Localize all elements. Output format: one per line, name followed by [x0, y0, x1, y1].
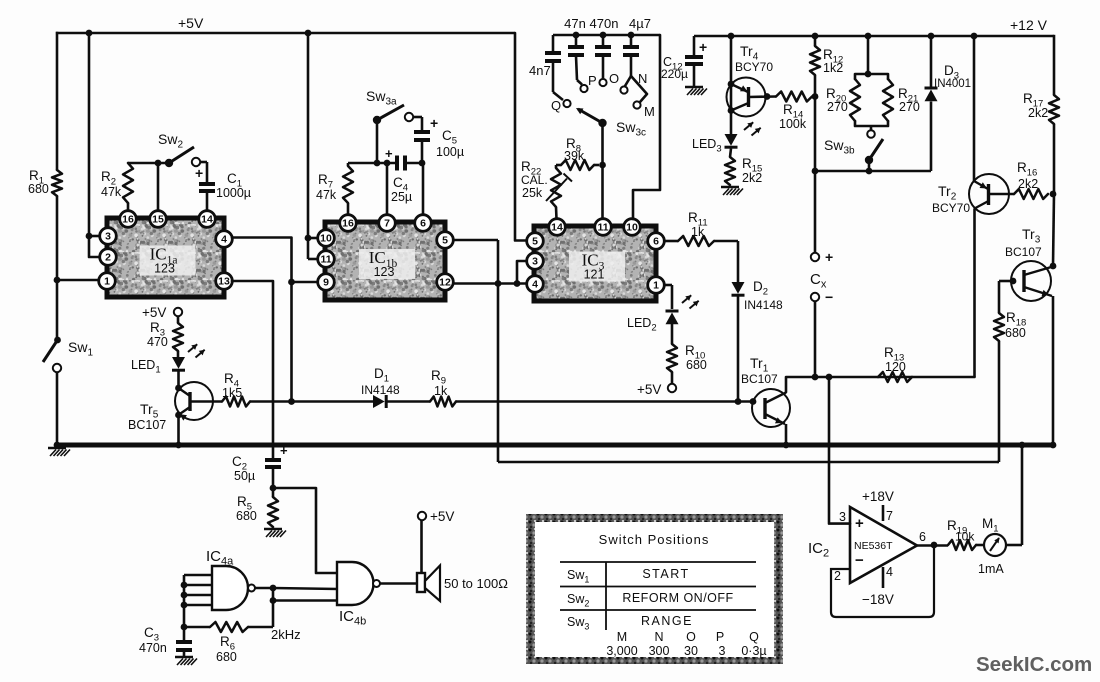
svg-text:30: 30 [684, 644, 698, 658]
svg-text:+: + [280, 443, 288, 458]
node R8 junction [599, 162, 606, 169]
label Tr1 [750, 355, 769, 375]
label IC4b [339, 608, 366, 628]
wire IC2 pin2 feedback [831, 546, 934, 617]
svg-text:9: 9 [323, 277, 329, 289]
wire IC2 pin3 [829, 377, 850, 524]
svg-text:NE536T: NE536T [854, 540, 893, 552]
svg-text:11: 11 [320, 254, 331, 266]
label LED1 [131, 358, 161, 376]
label Tr1 type [741, 372, 778, 386]
svg-text:13: 13 [218, 276, 230, 288]
label +5V rail [178, 15, 204, 31]
wire pin9 to riser [292, 281, 318, 284]
svg-text:BCY70: BCY70 [735, 60, 773, 74]
label pin2 [834, 569, 841, 583]
node R16 right [1050, 191, 1057, 198]
svg-text:1000µ: 1000µ [216, 186, 251, 200]
svg-text:2k2: 2k2 [1028, 106, 1048, 120]
svg-text:5: 5 [442, 235, 448, 247]
pin IC1a-13 [216, 273, 233, 290]
resistor R14 [776, 92, 812, 102]
wire LED3 to R15 [730, 149, 731, 158]
label R7 value [316, 188, 337, 202]
svg-text:O: O [686, 630, 696, 644]
wire R22 to pin14 [555, 207, 558, 219]
terminal Cx plus [811, 253, 819, 261]
label Tr3 [1022, 226, 1041, 246]
label 4n7 [529, 63, 551, 78]
label M1 [982, 516, 999, 535]
wire Sw2 horizontal [128, 162, 170, 165]
label D3 [944, 63, 959, 82]
ground R5 [264, 529, 286, 537]
pin IC1a-4 [216, 231, 233, 248]
switch Sw1 [43, 337, 61, 373]
wire C5 to node [421, 141, 424, 163]
svg-text:BC107: BC107 [1005, 245, 1042, 259]
svg-text:3: 3 [532, 256, 538, 268]
label R5 value [236, 509, 257, 523]
label IC2 [808, 540, 829, 560]
label IC2 plus [855, 515, 864, 532]
table frame [526, 514, 783, 664]
label R6 value [216, 650, 237, 664]
op-amp IC2 [850, 507, 917, 583]
node R20 rail [865, 33, 872, 40]
wire pin12 to IC3 pin4 [453, 282, 526, 285]
svg-text:47n: 47n [564, 16, 586, 31]
svg-text:1k2: 1k2 [823, 61, 843, 75]
wire IC4a inputs [184, 575, 212, 605]
resistor R19 [948, 540, 976, 550]
svg-text:680: 680 [1005, 326, 1026, 340]
wire R8 to R22 [556, 165, 561, 168]
label +12V [1010, 17, 1048, 33]
wire lower link line [498, 461, 998, 464]
wire R20R21 bottom [855, 121, 888, 130]
wire Tr3 emitter down [1052, 296, 1055, 445]
wire Tr3 base bar [1022, 270, 1025, 292]
pin IC1b-11 [318, 251, 335, 268]
table P [716, 630, 724, 644]
IC U3 body [534, 226, 656, 301]
wire R17 to R16 node [1053, 124, 1056, 194]
pin IC1b-7 [379, 215, 396, 232]
pin IC1b-9 [318, 274, 335, 291]
svg-text:6: 6 [919, 530, 926, 544]
label C4 plus [385, 146, 393, 161]
wire LED2 to R10 [671, 324, 674, 344]
wire +5V to speaker [420, 520, 423, 573]
label R18 [1006, 310, 1026, 329]
watermark SeekIC.com [976, 653, 1092, 676]
svg-text:Q: Q [749, 630, 759, 644]
svg-text:100k: 100k [779, 117, 807, 131]
label LED2 [627, 316, 657, 334]
label Tr2 [938, 183, 957, 203]
svg-text:680: 680 [236, 509, 257, 523]
wire cap bank rail [553, 34, 660, 36]
wire +5V to IC3 pin5 [515, 33, 526, 241]
svg-text:P: P [716, 630, 724, 644]
wire Sw3b bottom link [815, 170, 931, 173]
node Tr1 emitter bus [783, 442, 790, 449]
label C2 value [234, 469, 255, 483]
label C12 plus [699, 39, 707, 55]
svg-text:680: 680 [216, 650, 237, 664]
label Cx plus sign [825, 249, 833, 265]
label 4u7 [629, 16, 651, 31]
wire +5V rail [56, 32, 515, 34]
terminal +5V R10 [668, 384, 676, 392]
node Tr4 rail [728, 33, 735, 40]
terminal +5V IC1a [174, 308, 182, 316]
label R17 value [1028, 106, 1048, 120]
pin IC1b-12 [437, 274, 454, 291]
table title [599, 532, 710, 547]
svg-text:270: 270 [899, 100, 920, 114]
wire Tr4 base bar [747, 87, 750, 107]
label M1 value [978, 562, 1004, 576]
node R20R21 top [865, 71, 872, 78]
wire ground bus [56, 443, 1053, 448]
node pin1 tap [54, 277, 61, 284]
IC U1b body [325, 222, 445, 300]
node M1 bus [1019, 442, 1026, 449]
wire C4 to C5 node [405, 162, 423, 165]
svg-text:+18V: +18V [862, 489, 894, 504]
svg-text:BCY70: BCY70 [932, 201, 970, 215]
node pin7 riser [384, 160, 391, 167]
resistor R16 [1014, 189, 1048, 199]
label Cx minus sign [825, 289, 833, 305]
svg-text:3: 3 [719, 644, 726, 658]
svg-text:IN4148: IN4148 [744, 298, 783, 312]
capacitor C 470n [595, 35, 611, 78]
label R20 value [827, 100, 848, 114]
label R12 value [823, 61, 843, 75]
wire Tr1 emitter down [785, 424, 788, 445]
label +5V IC1a [142, 305, 166, 320]
label C1 value [216, 186, 251, 200]
svg-text:−18V: −18V [862, 592, 894, 607]
wire Tr2 emitter lead [974, 181, 988, 189]
table 300 [649, 644, 670, 658]
node Tr5 collector [175, 385, 182, 392]
label R5 [237, 494, 252, 513]
svg-text:10k: 10k [955, 530, 975, 544]
wire IC4a input bus [183, 575, 186, 627]
svg-text:220µ: 220µ [661, 67, 688, 81]
diode D3 [925, 88, 938, 101]
diode D2 [732, 282, 745, 295]
resistor R9 [430, 397, 456, 407]
wire Tr4 emitter riser [730, 36, 733, 134]
wire Tr3 base in [999, 280, 1012, 283]
wire Tr2 base bar [987, 184, 990, 205]
node bus left end [54, 442, 61, 449]
label R2 [101, 169, 116, 188]
LED LED3 [725, 122, 761, 147]
wire IC2 pin4 [882, 567, 885, 588]
label R4 value [222, 386, 242, 400]
table RANGE [641, 614, 693, 628]
label R1 [29, 168, 44, 187]
svg-text:BC107: BC107 [128, 418, 166, 432]
label IC2 type [854, 540, 893, 552]
resistor R20 [850, 79, 860, 121]
svg-text:50µ: 50µ [234, 469, 255, 483]
pin IC1b-10 [318, 230, 335, 247]
node pin10 junction [305, 235, 312, 242]
svg-text:121: 121 [584, 268, 605, 282]
table Q [749, 630, 759, 644]
label R17 [1023, 91, 1043, 110]
pin IC3-14 [549, 219, 566, 236]
node +5V rail to IC1b riser [305, 30, 312, 37]
wire Sw1 to ground bus [56, 372, 59, 445]
wire pin13 to C2 [232, 281, 273, 459]
resistor R13 [878, 372, 912, 382]
svg-text:4: 4 [886, 565, 893, 579]
capacitor C4 [397, 156, 405, 171]
node Tr1 base [750, 398, 757, 405]
svg-text:5: 5 [532, 236, 538, 248]
label C12 value [661, 67, 688, 81]
label C3 value [139, 641, 167, 655]
label D3 value [934, 78, 971, 90]
wire R17 top [1053, 35, 1056, 95]
label Tr5 type [128, 418, 166, 432]
wire Tr5 emitter down [177, 415, 180, 445]
wire IC2 pin7 [882, 505, 885, 521]
label R13 [884, 345, 904, 364]
label +5V speaker [430, 509, 454, 524]
svg-text:2k2: 2k2 [1018, 177, 1038, 191]
wire Sw3c to pin11 [601, 123, 604, 219]
label R22 value [522, 186, 543, 200]
label C4 [393, 175, 408, 194]
node C2/R5 junction [270, 485, 277, 492]
svg-text:16: 16 [122, 214, 134, 226]
wire Tr5 base bar [188, 392, 191, 411]
wire R4 to D1 [250, 400, 373, 403]
contact O [599, 79, 606, 86]
svg-text:N: N [654, 630, 663, 644]
svg-text:−: − [855, 552, 864, 569]
capacitor C 4n7 [545, 35, 561, 92]
diode D1 [373, 395, 386, 408]
label R21 value [899, 100, 920, 114]
resistor R3 [173, 323, 183, 351]
wire C4 bus [348, 162, 397, 165]
node Sw2 pin15 [155, 160, 162, 167]
switch Sw3b [865, 139, 883, 164]
svg-text:M: M [617, 630, 627, 644]
svg-text:25µ: 25µ [391, 190, 412, 204]
svg-text:M: M [644, 104, 655, 119]
LED LED2 [664, 285, 699, 324]
label Q [551, 98, 561, 113]
label R18 value [1005, 326, 1026, 340]
svg-text:2: 2 [834, 569, 841, 583]
wire R12 node to Cx plus [814, 171, 817, 253]
node bus right end [1050, 442, 1057, 449]
wire +12V rail [694, 35, 1054, 37]
IC U1a body [107, 218, 224, 297]
label R16 value [1018, 177, 1038, 191]
svg-text:12: 12 [439, 277, 451, 289]
table REFORM [622, 591, 733, 605]
wire LED1 to Tr5 [177, 372, 180, 389]
wire Sw3a riser [376, 121, 379, 163]
wire C1 to pin14 [206, 192, 209, 211]
label pin3 [839, 510, 846, 524]
pin IC3-4 [527, 276, 544, 293]
svg-text:START: START [642, 567, 689, 581]
table Sw2 [567, 592, 589, 609]
svg-text:1: 1 [653, 280, 659, 292]
wire D3 bottom [930, 102, 933, 172]
wire pin2 bracket [89, 236, 99, 257]
capacitor C2 [265, 460, 281, 467]
wire Cx minus down [814, 301, 817, 377]
resistor R15 [725, 157, 735, 185]
pin IC3-1 [648, 277, 665, 294]
label pin6 [919, 530, 926, 544]
wire cap rail right down [633, 35, 660, 219]
label R2 value [101, 185, 122, 199]
resistor R1 [52, 170, 62, 196]
capacitor C 47n [568, 35, 584, 80]
node C5 bottom [419, 160, 426, 167]
node pin3 junction [86, 233, 93, 240]
svg-text:123: 123 [374, 265, 395, 279]
node Tr5 emitter bus [175, 442, 182, 449]
label Tr3 type [1005, 245, 1042, 259]
wire Tr1 emitter lead [765, 414, 785, 424]
label R8 value [564, 149, 585, 163]
label R14 value [779, 117, 807, 131]
svg-text:680: 680 [686, 358, 707, 372]
LED LED1 [172, 344, 205, 370]
wire R16node to Tr3 [1053, 194, 1054, 266]
wire Tr2 collector down [973, 209, 976, 378]
node Tr4 collector [728, 107, 735, 114]
label Sw2 [158, 131, 183, 151]
wire pin15 riser [157, 163, 160, 211]
resistor R7 [343, 163, 353, 214]
svg-text:39k: 39k [564, 149, 585, 163]
node pin4/pin9 riser junction [288, 398, 295, 405]
pin IC1a-16 [120, 211, 137, 228]
wire 4n7 to Q [553, 92, 563, 100]
wire IC4a out [255, 587, 273, 590]
table START [642, 567, 689, 581]
switch Sw2 [165, 147, 200, 167]
table rule 2 [560, 586, 756, 588]
pin IC3-3 [527, 253, 544, 270]
svg-text:7: 7 [886, 509, 893, 523]
label -18V [862, 592, 894, 607]
wire out down to R6 [272, 588, 275, 627]
svg-text:SeekIC.com: SeekIC.com [976, 653, 1092, 676]
svg-text:6: 6 [420, 218, 426, 230]
svg-text:14: 14 [201, 214, 213, 226]
svg-text:+5V: +5V [178, 15, 204, 31]
wire pin5 vertical down [497, 240, 500, 462]
node IC2 pin3 riser top [826, 374, 833, 381]
resistor R5 [268, 497, 278, 527]
label P [588, 73, 597, 88]
ground bus left [48, 448, 70, 456]
contact N [620, 76, 631, 94]
label C2 [232, 454, 247, 473]
node Tr3 base [1010, 278, 1017, 285]
wire R19 to M1 [976, 544, 984, 547]
table vline [605, 562, 607, 630]
contact P [577, 80, 588, 92]
resistor R11 [664, 236, 738, 246]
table rule 3 [560, 609, 756, 611]
svg-text:16: 16 [342, 218, 354, 230]
label R11 [688, 210, 708, 229]
node in4 [181, 602, 188, 609]
label R19 value [955, 530, 975, 544]
svg-text:−: − [825, 289, 833, 305]
wire R10 bottom [671, 372, 674, 384]
wire pin3 riser [89, 33, 99, 236]
node Tr4 emitter [728, 81, 735, 88]
label C3 [144, 625, 159, 644]
svg-text:BC107: BC107 [741, 372, 778, 386]
label pin7 [886, 509, 893, 523]
svg-text:3,000: 3,000 [606, 644, 637, 658]
label LED3 [692, 137, 722, 155]
label D2 value [744, 298, 783, 312]
resistor R8 [561, 160, 599, 170]
wire R20R21 top [855, 36, 888, 79]
capacitor C12 [685, 36, 703, 86]
node pin5/pin4 junction [495, 280, 502, 287]
wire R14 to R12 node [812, 95, 815, 98]
wire D2 top [737, 241, 740, 282]
svg-text:0·3µ: 0·3µ [741, 644, 766, 658]
label C4 value [391, 190, 412, 204]
node 47n rail [573, 32, 580, 39]
wire Tr5 collector lead [179, 388, 191, 396]
ground R15 [721, 187, 743, 195]
wire R18 top [998, 281, 1001, 313]
pin IC1b-16 [340, 215, 357, 232]
svg-text:3: 3 [839, 510, 846, 524]
svg-text:+5V: +5V [637, 382, 661, 397]
svg-text:+: + [825, 249, 833, 265]
label C1 plus [195, 165, 203, 181]
wire Sw2 to C1 [200, 162, 207, 183]
label R22 cal [521, 173, 548, 187]
label R9 [431, 368, 446, 387]
node D2 junction [735, 398, 742, 405]
resistor R21 [883, 79, 893, 121]
label C1 [227, 171, 242, 190]
wire pin5 to vertical [453, 239, 498, 242]
label R7 [318, 172, 333, 191]
pin IC1a-2 [100, 249, 117, 266]
label C5 [442, 128, 457, 147]
wire pin6 riser [422, 163, 425, 214]
